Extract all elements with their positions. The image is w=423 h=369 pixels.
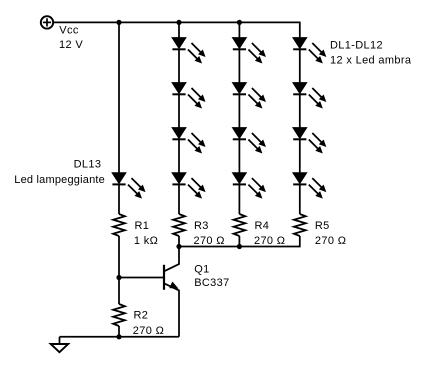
svg-text:Q1: Q1: [194, 264, 209, 276]
wire DL13 to R1: [118, 184, 120, 214]
wire branch D top corner: [299, 22, 301, 38]
LED DL6: [233, 83, 266, 108]
resistor R2: [113, 304, 125, 326]
wire R1 to base node: [118, 236, 120, 278]
wire DL7 to DL8: [238, 139, 240, 173]
wire branch A down to DL13: [118, 22, 120, 173]
LED DL5: [233, 38, 266, 63]
LED DL13: [112, 173, 145, 198]
svg-text:R2: R2: [134, 309, 149, 321]
wire DL3 to DL4: [178, 139, 180, 173]
LED DL2: [172, 83, 205, 108]
node ground rail junction: [116, 334, 121, 339]
svg-text:270 Ω: 270 Ω: [133, 325, 164, 337]
wire branch C top to DL5: [238, 22, 240, 38]
Vcc supply symbol: [41, 16, 53, 28]
svg-text:270 Ω: 270 Ω: [315, 235, 346, 247]
wire branch B top to DL1: [178, 22, 180, 38]
node base junction: [116, 275, 121, 280]
svg-text:12 V: 12 V: [59, 39, 83, 51]
svg-text:DL13: DL13: [74, 158, 102, 170]
LED DL3: [172, 128, 205, 153]
svg-text:270 Ω: 270 Ω: [194, 235, 225, 247]
wire R4 to collector rail: [238, 236, 240, 247]
wire DL1 to DL2: [178, 49, 180, 83]
node collector rail / R3: [176, 244, 181, 249]
svg-text:R4: R4: [255, 220, 270, 232]
wire DL11 to DL12: [299, 139, 301, 173]
svg-text:1 kΩ: 1 kΩ: [134, 235, 158, 247]
wire DL10 to DL11: [299, 94, 301, 128]
wire R5 to collector rail: [299, 236, 301, 247]
svg-text:R3: R3: [194, 220, 209, 232]
wire collector rail: [179, 246, 300, 248]
wire DL9 to DL10: [299, 49, 301, 83]
wire DL4 to R3: [178, 184, 180, 214]
resistor R3: [173, 214, 185, 236]
wire DL2 to DL3: [178, 94, 180, 128]
LED DL12: [293, 173, 326, 198]
LED DL7: [233, 128, 266, 153]
svg-text:Led lampeggiante: Led lampeggiante: [14, 174, 105, 186]
node collector rail / R4: [237, 244, 242, 249]
resistor R5: [294, 214, 306, 236]
transistor Q1: [164, 247, 179, 337]
LED DL1: [172, 38, 205, 63]
wire R3 to collector rail: [178, 236, 180, 247]
wire R2 to ground rail: [118, 326, 120, 337]
wire DL6 to DL7: [238, 94, 240, 128]
wire DL8 to R4: [238, 184, 240, 214]
node top rail / DL13 branch: [116, 20, 121, 25]
svg-text:Vcc: Vcc: [59, 24, 79, 36]
LED DL8: [233, 173, 266, 198]
wire DL12 to R5: [299, 184, 301, 214]
node top rail / R4 branch: [237, 20, 242, 25]
resistor R1: [113, 214, 125, 236]
node top rail / R3 branch: [176, 20, 181, 25]
svg-text:R1: R1: [135, 220, 150, 232]
svg-text:270 Ω: 270 Ω: [254, 235, 285, 247]
ground: [51, 337, 68, 352]
wire base node to R2: [118, 278, 120, 305]
wire top rail: [53, 21, 300, 23]
svg-text:DL1-DL12: DL1-DL12: [330, 39, 383, 51]
LED DL4: [172, 173, 205, 198]
wire base lead: [119, 277, 164, 279]
wire ground rail: [60, 336, 180, 338]
LED DL10: [293, 83, 326, 108]
LED DL9: [293, 38, 326, 63]
svg-text:R5: R5: [315, 220, 330, 232]
svg-text:12 x Led ambra: 12 x Led ambra: [330, 55, 412, 67]
resistor R4: [234, 214, 246, 236]
svg-text:BC337: BC337: [194, 277, 229, 289]
LED DL11: [293, 128, 326, 153]
wire DL5 to DL6: [238, 49, 240, 83]
